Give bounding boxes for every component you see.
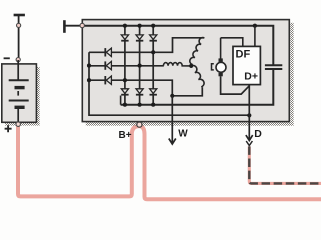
- battery ground terminal T: [14, 14, 25, 17]
- wire: phase 3 line: [89, 80, 202, 96]
- diode D2 top of column 2: [136, 35, 143, 41]
- wire: battery cell link: [17, 91, 19, 96]
- wire: phase 1 line: [89, 38, 204, 53]
- svg-text:DF: DF: [236, 48, 251, 60]
- diode D9 exciter phase 3: [105, 76, 111, 84]
- stator coil L2 horizontal: [163, 63, 191, 66]
- wire: D terminal cable pink with dark dashes: [249, 146, 321, 183]
- diode D3 top of column 3: [150, 35, 157, 41]
- wire: top ground bus with capacitor top drop: [82, 26, 273, 65]
- svg-text:B+: B+: [119, 130, 132, 141]
- rotor G1 field winding: [220, 38, 222, 59]
- battery cell 2: [9, 100, 29, 102]
- rotor brush bracket: [212, 64, 214, 70]
- junction dots top bus: [123, 24, 127, 28]
- junction dot W tap: [170, 94, 174, 98]
- wire: bus A left end upturn: [120, 96, 122, 105]
- battery cell 1: [9, 79, 29, 81]
- diode D6 bottom of column 3: [150, 89, 157, 95]
- node: B+ terminal: [137, 122, 142, 127]
- label: plus: [5, 125, 12, 132]
- terminal W line and arrow: [171, 96, 173, 144]
- capacitor C1: [265, 64, 282, 66]
- diode D4 bottom of column 1: [121, 89, 128, 95]
- wire: bridge column 3: [152, 26, 154, 105]
- wire: battery terminal stem: [18, 15, 20, 58]
- node: stator star centre: [189, 64, 193, 68]
- wire: regulator sense riser from top bus: [254, 26, 256, 47]
- wire: DF riser to rotor link: [221, 38, 243, 47]
- wire: ground terminal to case: [64, 25, 82, 27]
- diode D1 top of column 1: [121, 35, 128, 41]
- wire: D plus drop to terminal: [248, 85, 250, 140]
- wire: pink cable battery plus to B+ hairpin and bottom runs: [18, 126, 321, 199]
- svg-text:D+: D+: [244, 70, 258, 82]
- battery B1 case: [37, 67, 40, 125]
- node: battery plus node: [16, 122, 20, 126]
- stator coil L1 upper diagonal: [190, 38, 204, 66]
- wire: phase 2 line: [89, 65, 164, 67]
- svg-text:W: W: [178, 128, 188, 139]
- diode D5 bottom of column 2: [136, 89, 143, 95]
- node: alternator case ground node: [80, 23, 84, 27]
- diode D7 exciter phase 1: [105, 48, 111, 56]
- alternator ground terminal T: [63, 20, 66, 33]
- junction dots phases: [151, 50, 155, 54]
- wire: bridge column 1: [124, 26, 126, 105]
- alternator case box: [290, 23, 293, 126]
- wire: B+ bus A with capacitor bottom riser: [121, 69, 274, 104]
- wire: inside battery top: [17, 60, 19, 80]
- wire: bridge column 2: [139, 26, 141, 105]
- junction dots bus A: [123, 103, 127, 107]
- diode D8 exciter phase 2: [105, 61, 111, 69]
- stator coil L3 lower diagonal: [191, 65, 204, 87]
- regulator U1: [233, 46, 260, 84]
- node: battery minus node: [16, 58, 20, 62]
- svg-text:D: D: [254, 128, 262, 140]
- terminal D arrow chevrons: [246, 135, 253, 140]
- node: battery terminal node: [17, 23, 21, 27]
- junction dot D plus on bus B: [247, 113, 251, 117]
- wire: battery cell to case bottom: [17, 109, 19, 123]
- label: minus: [4, 57, 10, 59]
- wire: exciter diode bus and D+ bus B: [89, 52, 249, 115]
